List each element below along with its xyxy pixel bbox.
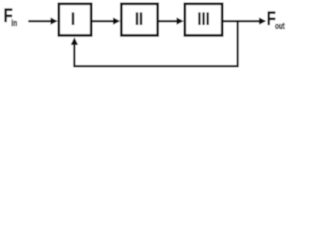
svg-text:in: in (11, 18, 17, 28)
block III (185, 4, 222, 36)
label F_out (267, 7, 286, 31)
wire: block I to block II (93, 20, 114, 22)
label II (136, 12, 142, 25)
arrowhead into block II (113, 17, 120, 24)
block II (121, 4, 157, 36)
wire: input F_in to block I (28, 20, 51, 22)
wire: block III to output (224, 20, 260, 22)
label F_in (4, 4, 18, 28)
block I (59, 4, 91, 36)
arrowhead to F_out (259, 17, 266, 24)
wire: block II to block III (159, 20, 177, 22)
arrowhead up into block I bottom (71, 37, 78, 45)
svg-text:out: out (275, 21, 285, 31)
arrowhead into block III (177, 17, 184, 24)
wire: feedback path from junction node after block III (down, left, up into block I) (74, 21, 237, 66)
label III (198, 12, 209, 25)
arrowhead into block I (51, 17, 58, 24)
label I (72, 12, 74, 25)
